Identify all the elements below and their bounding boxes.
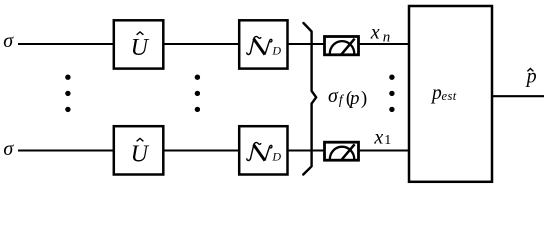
label sigma_f(p) — [328, 85, 367, 109]
svg-text:x: x — [370, 22, 380, 44]
svg-text:σ: σ — [3, 138, 14, 160]
svg-text:σ: σ — [328, 85, 339, 107]
svg-text:D: D — [271, 44, 281, 58]
processor box p_est — [409, 6, 492, 182]
gate U-hat (bottom) — [114, 126, 164, 174]
brace grouping measured outcomes, sigma_f(p) — [303, 23, 316, 175]
meter M (bottom): measurement box — [325, 142, 359, 161]
vertical dots column (right) — [389, 75, 394, 113]
svg-text:n: n — [383, 30, 391, 46]
svg-text:x: x — [373, 126, 383, 148]
gate U-hat (top) — [114, 20, 164, 68]
svg-text:σ: σ — [3, 30, 14, 52]
svg-text:est: est — [442, 89, 457, 103]
vertical dots column (middle) — [195, 75, 200, 113]
wire: bottom qubit line — [18, 149, 409, 151]
label x_n (top outcome) — [370, 22, 391, 46]
channel N_D (bottom) — [239, 126, 287, 174]
svg-text:U: U — [131, 35, 150, 61]
svg-text:D: D — [271, 150, 281, 164]
svg-text:p: p — [430, 83, 442, 104]
label x_1 (bottom outcome) — [373, 126, 391, 148]
label p-hat (estimate output) — [525, 66, 537, 88]
wire: top qubit line — [18, 43, 409, 45]
svg-text:): ) — [361, 88, 367, 109]
channel N_D (top) — [239, 20, 287, 68]
svg-text:U: U — [131, 141, 150, 167]
vertical dots column (left) — [65, 75, 70, 113]
svg-text:1: 1 — [384, 133, 391, 148]
wire: output classical line — [492, 95, 544, 97]
svg-text:p: p — [348, 88, 360, 109]
meter M (top): measurement box — [325, 37, 359, 56]
